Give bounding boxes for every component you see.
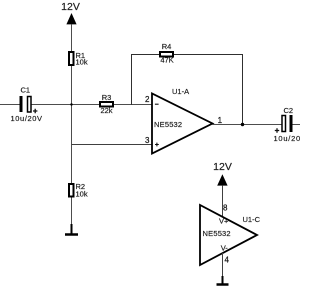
- power 12V bottom: [213, 161, 232, 216]
- svg-text:8: 8: [223, 204, 228, 213]
- resistor R4: [160, 42, 174, 65]
- svg-text:4: 4: [225, 256, 230, 265]
- resistor R3: [100, 93, 113, 115]
- resistor R1: [69, 52, 74, 65]
- wire: input lead from left edge to C1: [0, 104, 20, 106]
- wire: vertical bias rail 12V arrow to R1 to R2: [71, 25, 73, 225]
- svg-text:NE5532: NE5532: [203, 229, 231, 238]
- svg-text:22k: 22k: [100, 106, 112, 115]
- wire: feedback horizontal through R4: [131, 54, 243, 56]
- svg-text:47K: 47K: [160, 56, 173, 65]
- resistor R2: [69, 182, 88, 199]
- wire: feedback vertical down to output: [242, 54, 244, 125]
- wire: output lead C2 to right edge: [292, 124, 300, 126]
- svg-text:10u/20V: 10u/20V: [11, 114, 43, 123]
- svg-text:2: 2: [145, 95, 150, 104]
- svg-text:10k: 10k: [76, 58, 88, 67]
- svg-text:12V: 12V: [213, 161, 232, 173]
- wire: non-inverting input tap: [72, 144, 153, 146]
- svg-text:10u/20V: 10u/20V: [274, 134, 301, 143]
- svg-text:1: 1: [218, 116, 223, 125]
- svg-text:R3: R3: [102, 93, 112, 102]
- svg-text:C1: C1: [21, 86, 31, 95]
- op-amp U1-A: [145, 87, 223, 154]
- wire: main signal wire C1 to op-amp minus input: [31, 104, 152, 106]
- power 12V top: [61, 1, 80, 24]
- svg-text:C2: C2: [284, 106, 294, 115]
- svg-text:NE5532: NE5532: [154, 120, 182, 129]
- ground (op-amp V-): [217, 276, 229, 285]
- capacitor C1: [11, 86, 43, 124]
- capacitor C2: [274, 106, 307, 143]
- junction at output node: [241, 123, 244, 126]
- wire: output wire op-amp to C2: [213, 124, 283, 126]
- svg-text:U1-A: U1-A: [172, 87, 189, 96]
- ground (bias divider): [65, 224, 78, 235]
- svg-text:V-: V-: [221, 243, 229, 252]
- svg-text:U1-C: U1-C: [243, 215, 261, 224]
- svg-text:R4: R4: [162, 42, 172, 51]
- svg-text:3: 3: [145, 136, 150, 145]
- svg-text:10k: 10k: [76, 190, 88, 199]
- op-amp U1-C (power section): [200, 204, 261, 284]
- junction at bias node: [70, 103, 72, 105]
- svg-text:V+: V+: [219, 216, 229, 225]
- wire: feedback vertical from input node up: [131, 55, 133, 106]
- svg-text:12V: 12V: [61, 1, 80, 13]
